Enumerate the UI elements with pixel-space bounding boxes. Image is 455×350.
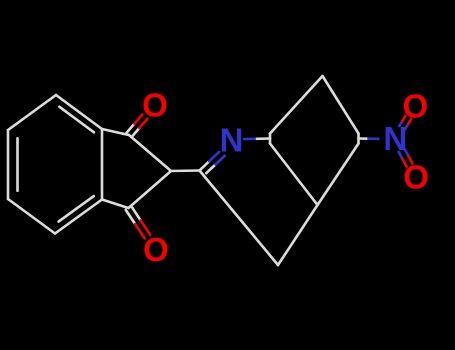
wire phenyl edge R-B [318,144,359,206]
wire bond C2-C3 [129,171,172,208]
wire C2q=N1 inner double line [206,156,225,174]
wire N=O top double bond [399,116,411,130]
wire phenyl edge T-R [323,76,359,134]
wire bond C2-CH [171,169,200,172]
svg-text:N: N [220,122,244,159]
wire phenyl short left edge [269,134,272,144]
wire bond C3-C3a [102,200,129,209]
svg-text:N: N [383,120,407,157]
svg-text:O: O [143,231,169,268]
wire phenyl edge L-T [270,76,323,134]
wire bond N1-C8a [244,137,270,140]
wire C1=O double bond [127,115,148,138]
svg-text:O: O [142,86,168,123]
wire benzo inner double T-UR [59,107,94,133]
wire benzo edge UR-LR (fused edge) [101,129,104,200]
wire N=O bottom double bond [399,149,413,167]
wire bond C3q-C4q [278,205,318,265]
wire benzo edge LR-B [55,200,102,234]
wire benzo edge T-UR [56,95,102,129]
wire C2q=N1 main line [200,152,220,171]
wire phenyl short right edge [357,134,360,144]
wire bond phenyl-N(nitro) [359,137,379,140]
wire benzo edge B-LL [8,199,55,234]
wire benzo inner double LL-UL [16,138,19,190]
wire benzo inner double LR-B [59,196,94,222]
wire benzo edge LL-UL [7,130,10,199]
wire bond C1-C2 [129,135,171,171]
wire bond C2q-C3q (long ring bond) [200,171,279,266]
wire benzo edge UL-T [8,95,56,130]
svg-text:O: O [402,87,428,124]
wire bond C7a-C1 [102,129,129,135]
wire phenyl edge B-L [270,144,318,206]
wire C3=O double bond [126,206,151,238]
svg-text:O: O [403,158,429,195]
